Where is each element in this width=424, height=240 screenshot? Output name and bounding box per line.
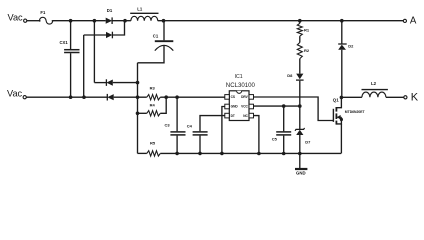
wire C5 top lead <box>283 106 285 131</box>
svg-text:R3: R3 <box>150 86 156 91</box>
wire second rectifier row left <box>84 34 106 36</box>
wire D2 to switch node <box>341 50 343 98</box>
wire R5 left lead from negative bus <box>138 152 147 154</box>
pin box left 3 <box>225 113 230 118</box>
wire CS line: R3 to IC <box>160 96 225 98</box>
Q1 channel bar <box>335 107 337 125</box>
node C5 top <box>282 104 286 108</box>
svg-text:CS: CS <box>231 95 235 99</box>
wire C3 top lead <box>176 97 178 131</box>
diode D2 <box>338 44 347 50</box>
capacitor C5 <box>276 132 291 135</box>
fuse F1 <box>39 17 54 24</box>
wire C1 top lead <box>163 21 165 41</box>
svg-text:DT: DT <box>231 114 235 118</box>
inductor L1 <box>130 13 158 20</box>
wire R4 left lead <box>138 112 147 114</box>
svg-text:A: A <box>410 15 417 26</box>
svg-text:GND: GND <box>231 105 239 109</box>
resistor R3 <box>147 95 161 100</box>
svg-text:D8: D8 <box>287 73 293 78</box>
resistor R2 <box>297 43 302 59</box>
wire VCC to D7 <box>299 106 301 129</box>
wire bridge leg down from top rail <box>93 21 95 83</box>
resistor R4 <box>147 111 161 116</box>
capacitor C1 (polarized) <box>155 41 174 50</box>
svg-text:C1: C1 <box>153 33 159 38</box>
wire R2 to D8 <box>299 59 301 74</box>
svg-text:C3: C3 <box>165 122 171 127</box>
node D7 bottom / GND <box>298 152 302 156</box>
terminal A <box>403 19 406 22</box>
node C3 top <box>175 95 179 99</box>
ground stem <box>299 154 301 169</box>
diode D4 (bottom rectifier) <box>107 94 113 101</box>
wire VCC line <box>254 105 300 107</box>
terminal Vac bottom <box>23 96 26 99</box>
wire C1 bottom lead to negative bus <box>138 46 165 63</box>
svg-text:R2: R2 <box>304 48 310 53</box>
svg-text:Q1: Q1 <box>333 98 339 103</box>
node R3/R4 right <box>164 95 168 99</box>
wire top rail to R1 <box>299 21 301 24</box>
Q1 body arrow <box>336 115 341 120</box>
node NC bottom <box>257 152 261 156</box>
pin box right 1 <box>249 95 254 100</box>
svg-text:CX1: CX1 <box>60 40 69 45</box>
node bridge leg top <box>93 19 97 23</box>
svg-text:C5: C5 <box>272 136 278 141</box>
capacitor CX1 <box>64 50 79 53</box>
node VCC/D8/D7 <box>298 104 302 108</box>
svg-text:D7: D7 <box>305 139 311 144</box>
svg-text:R1: R1 <box>304 28 310 33</box>
wire D7 to ground rail <box>299 135 301 154</box>
inductor L2 <box>362 90 388 98</box>
pin box left 2 <box>225 104 230 109</box>
node rectified positive <box>123 19 127 23</box>
wire top rail: fuse to D1 <box>53 20 106 22</box>
diode D8 <box>296 74 304 81</box>
svg-text:Vac: Vac <box>8 13 24 23</box>
pin box right 3 <box>249 113 254 118</box>
node C1 top <box>162 19 166 23</box>
diode D3 (second rectifier) <box>106 32 112 39</box>
pin box right 2 <box>249 104 254 109</box>
terminal Vac top <box>24 19 27 22</box>
svg-text:C4: C4 <box>187 124 193 129</box>
svg-text:L2: L2 <box>371 81 377 86</box>
wire second rectifier row right <box>112 21 124 35</box>
wire DRV to Q1 gate <box>254 97 334 121</box>
node R1 top <box>298 19 302 23</box>
wire bottom ground rail <box>160 152 341 154</box>
resistor R1 <box>297 23 302 36</box>
node C5 bottom <box>282 152 286 156</box>
pin box left 1 <box>225 95 230 100</box>
op IC1 NCL30100 body <box>229 91 249 121</box>
svg-text:IC1: IC1 <box>235 74 243 80</box>
svg-text:GND: GND <box>296 171 306 176</box>
node negative bus / bottom rail <box>136 95 140 99</box>
capacitor C3 <box>170 132 185 135</box>
wire CX1 bottom lead <box>70 53 72 97</box>
svg-text:DRV: DRV <box>241 95 249 99</box>
svg-text:NC: NC <box>243 114 248 118</box>
svg-text:VCC: VCC <box>241 105 248 109</box>
wire bottom rail: terminal to D4 <box>26 96 107 98</box>
wire R4 right lead up to R3 <box>160 97 166 113</box>
zener diode D7 <box>295 128 305 135</box>
wire top rail to D2 <box>341 21 343 44</box>
wire IC GND pin to ground rail <box>222 107 225 154</box>
svg-text:Vac: Vac <box>7 89 23 99</box>
svg-text:NCL30100: NCL30100 <box>226 82 256 89</box>
wire D8 to VCC <box>299 81 301 106</box>
wire top rail: L1 to terminal A <box>158 20 404 22</box>
Q1 source to ground rail <box>340 124 342 153</box>
terminal K <box>404 96 407 99</box>
wire DT to C4 <box>200 116 225 132</box>
ground bar <box>295 168 307 170</box>
node CX1 top <box>69 19 73 23</box>
capacitor C4 <box>193 132 208 135</box>
wire bottom rail: D4 to R3 <box>114 96 147 98</box>
svg-text:D1: D1 <box>107 8 113 13</box>
Q1 drain lead <box>336 97 341 107</box>
wire CX1 top lead <box>70 21 72 49</box>
svg-text:R4: R4 <box>150 103 156 108</box>
wire top rail: Vac to fuse <box>27 20 40 22</box>
node CX1 bottom <box>69 95 73 99</box>
wire switch node to L2 <box>341 96 362 98</box>
Q1 gate bar <box>332 109 334 122</box>
node negative bus / third row <box>136 81 140 85</box>
node switch (drain/L2/D2) <box>340 96 344 100</box>
svg-text:F1: F1 <box>40 10 46 15</box>
svg-text:L1: L1 <box>137 7 143 12</box>
resistor R5 <box>147 151 161 156</box>
wire L2 to terminal K <box>386 96 404 98</box>
wire negative bus vertical <box>137 63 139 154</box>
node R4 left <box>136 112 140 116</box>
svg-text:MTD6N20ET: MTD6N20ET <box>345 110 366 114</box>
diode D1 <box>106 17 112 24</box>
diode D5 (third rectifier) <box>106 79 112 86</box>
wire bridge left leg to bottom rail <box>83 35 85 97</box>
node D2 top <box>340 19 344 23</box>
wire C3 bottom lead <box>176 136 178 154</box>
node C3 bottom <box>175 152 179 156</box>
wire third rectifier row right <box>113 82 138 84</box>
wire C5 bottom lead <box>283 136 285 154</box>
wire top rail: D1 to L1 <box>112 20 131 22</box>
node bridge leg bottom <box>82 95 86 99</box>
node C4 bottom <box>198 152 202 156</box>
Q1 source lead <box>336 117 341 124</box>
wire C4 bottom lead <box>199 136 201 154</box>
node Q1 body-source <box>340 118 343 121</box>
svg-text:R5: R5 <box>150 141 156 146</box>
node IC GND bottom <box>220 152 224 156</box>
wire R1 to R2 <box>299 36 301 42</box>
svg-text:D2: D2 <box>348 43 354 48</box>
wire NC pin to ground rail <box>254 116 259 154</box>
svg-text:K: K <box>411 92 419 104</box>
wire third rectifier row left <box>94 82 106 84</box>
